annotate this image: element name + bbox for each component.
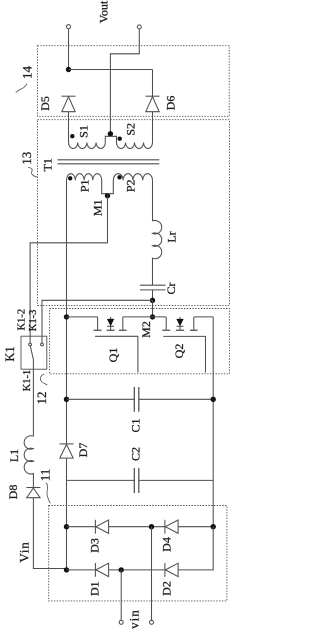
MOSFET Q1 <box>67 317 153 373</box>
label 13 <box>19 152 37 178</box>
node C1 right <box>211 397 216 402</box>
node M1 tap <box>105 193 110 198</box>
node secondary center tap <box>108 131 113 136</box>
wire cathode link <box>69 69 153 71</box>
vin terminal left <box>119 620 123 624</box>
bridge bottom rail <box>67 527 214 570</box>
wire K1-3 rail <box>42 300 153 343</box>
diode D5 <box>62 96 76 142</box>
node bridge DC+ bottom <box>64 567 69 572</box>
wire M2 link <box>152 300 154 317</box>
svg-text:D4: D4 <box>160 537 174 552</box>
diode D6 <box>146 96 160 142</box>
svg-text:S2: S2 <box>124 123 138 136</box>
wire left bus P1 to bridge <box>66 180 68 570</box>
dashed box 12 <box>50 309 230 374</box>
capacitor C1 <box>67 387 214 412</box>
node Cr to rail <box>150 298 155 303</box>
diode D2 <box>165 563 178 577</box>
node vin right to top rail <box>149 524 154 529</box>
vin terminal right <box>150 620 154 624</box>
svg-text:C2: C2 <box>128 447 142 461</box>
svg-text:D1: D1 <box>88 581 102 596</box>
svg-text:D3: D3 <box>87 538 101 553</box>
wire M1 to K1-2 <box>30 196 107 344</box>
svg-text:D8: D8 <box>6 485 20 500</box>
wire right bus Q2 source down <box>212 317 214 527</box>
relay K1 contact K1-3 <box>41 343 44 346</box>
svg-text:D5: D5 <box>38 96 52 111</box>
svg-text:T1: T1 <box>41 158 55 171</box>
capacitor Cr <box>140 285 166 300</box>
svg-text:K1-3: K1-3 <box>28 310 39 332</box>
svg-text:14: 14 <box>20 66 35 80</box>
node vin left to bottom rail <box>119 567 124 572</box>
diode D3 <box>95 520 108 534</box>
svg-text:M2: M2 <box>139 321 153 338</box>
dashed box 14 <box>38 46 230 117</box>
wire Vout right elbow <box>110 29 139 134</box>
transformer T1 primary winding P2 <box>108 174 153 194</box>
Vout terminal left <box>67 25 71 29</box>
relay K1 lever <box>30 346 33 360</box>
svg-text:K1-1: K1-1 <box>22 370 33 392</box>
wire Vout left stem <box>68 29 70 70</box>
svg-text:Lr: Lr <box>164 231 178 242</box>
svg-text:11: 11 <box>37 469 52 482</box>
node bridge DC+ top <box>64 524 69 529</box>
svg-text:Vout: Vout <box>97 0 111 23</box>
wire vin right stem <box>151 527 153 621</box>
svg-text:C1: C1 <box>128 418 142 432</box>
svg-text:Vin: Vin <box>17 541 32 562</box>
label 12 <box>34 374 49 405</box>
svg-text:P1: P1 <box>77 179 91 192</box>
node junction D5/D6 cathodes <box>66 67 71 72</box>
wire K1-1 stem <box>32 360 34 437</box>
svg-text:P2: P2 <box>124 179 138 192</box>
svg-text:vin: vin <box>126 609 141 629</box>
svg-text:D6: D6 <box>164 96 178 111</box>
bridge top rail <box>67 526 214 528</box>
transformer T1 primary winding P1 <box>67 174 108 194</box>
svg-text:S1: S1 <box>76 125 90 138</box>
diode D4 <box>165 520 178 534</box>
dashed box 13 <box>38 120 230 306</box>
inductor L1 <box>24 436 33 488</box>
diode D8 <box>26 488 66 569</box>
svg-text:K1: K1 <box>3 346 17 361</box>
polarity dot P1 <box>68 176 72 180</box>
label 14 <box>16 66 35 93</box>
transformer T1 core <box>58 160 160 164</box>
svg-text:M1: M1 <box>91 199 105 216</box>
relay K1 box <box>21 336 47 369</box>
svg-text:13: 13 <box>19 152 34 165</box>
svg-text:Q1: Q1 <box>106 348 120 363</box>
label 11 <box>37 469 52 504</box>
svg-text:Cr: Cr <box>164 282 178 294</box>
polarity dot S1 <box>70 134 74 138</box>
wire vin left stem <box>120 570 122 620</box>
node C1 left <box>64 397 69 402</box>
polarity dot S2 <box>118 137 122 141</box>
wire P2 right end down <box>152 180 154 221</box>
Vout terminal right <box>137 25 141 29</box>
svg-text:12: 12 <box>34 392 49 405</box>
svg-text:L1: L1 <box>7 449 21 462</box>
transformer T1 secondary winding S2 <box>110 136 152 148</box>
inductor Lr <box>152 221 161 286</box>
svg-text:Q2: Q2 <box>172 344 186 359</box>
wire D6 top stem <box>152 70 154 97</box>
diode D7 <box>60 444 74 458</box>
diode D1 <box>95 563 108 577</box>
polarity dot P2 <box>117 175 121 179</box>
node right bus to top rail <box>211 524 216 529</box>
transformer T1 secondary winding S1 <box>69 136 111 148</box>
MOSFET Q2 <box>153 317 214 373</box>
dashed box 11 <box>49 506 227 601</box>
node M2 <box>150 314 155 319</box>
svg-text:D2: D2 <box>160 581 174 596</box>
svg-text:D7: D7 <box>76 443 90 458</box>
capacitor C2 <box>67 468 214 493</box>
relay K1 contact K1-2 <box>29 343 32 346</box>
node Q1 drain tap <box>64 314 69 319</box>
svg-text:K1-2: K1-2 <box>16 309 27 331</box>
